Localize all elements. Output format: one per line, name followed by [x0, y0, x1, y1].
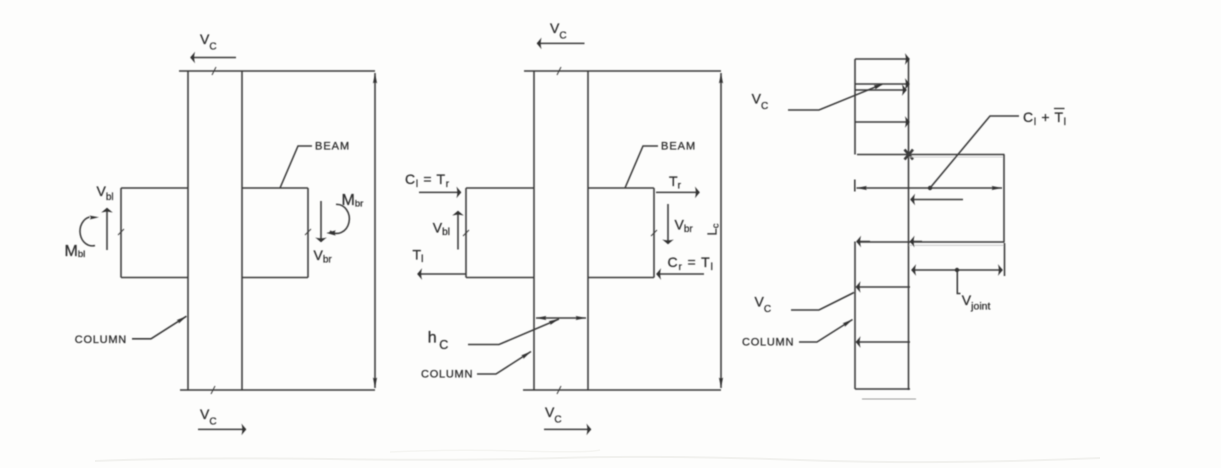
- F2 break tick column top: [557, 67, 561, 75]
- F2 break tick column bottom: [557, 386, 561, 394]
- svg-text:BEAM: BEAM: [661, 141, 696, 153]
- svg-text:VC: VC: [200, 406, 217, 428]
- F1 Vbr arrow down: [320, 201, 322, 242]
- F3 lower rung arrow 2: [856, 341, 910, 343]
- F1 break tick beam left: [118, 229, 124, 235]
- svg-text:Mbr: Mbr: [342, 192, 364, 210]
- svg-text:Cl + Tl: Cl + Tl: [1023, 109, 1067, 128]
- svg-text:COLUMN: COLUMN: [421, 369, 473, 381]
- F1 Mbl moment arc: [80, 217, 95, 246]
- F3 upper rung arrow 2: [855, 121, 910, 123]
- F3 lower rung arrow 1: [856, 286, 910, 288]
- F1 COLUMN leader: [132, 316, 187, 339]
- F3 joint right line: [1003, 155, 1005, 243]
- F1 beam right rect: [242, 188, 308, 278]
- F1 bottom edge: [180, 389, 375, 391]
- F2 BEAM leader: [625, 146, 658, 188]
- F2 Cl=Tr arrow right: [419, 191, 461, 193]
- svg-text:Tl: Tl: [413, 247, 424, 266]
- F3 upper top edge arrow: [855, 58, 910, 60]
- svg-text:COLUMN: COLUMN: [742, 337, 794, 349]
- F3 Vjoint L leader: [957, 272, 960, 294]
- F3 bottom edge arrowhead mid: [910, 241, 922, 243]
- svg-text:VC: VC: [545, 404, 562, 426]
- F3 X mark: [905, 150, 914, 160]
- F3 Ti overline: [1054, 108, 1065, 110]
- F2 Vbl arrow up: [457, 211, 459, 250]
- F2 bottom edge: [523, 389, 721, 391]
- F3 lower column left line: [854, 242, 856, 390]
- F1 beam left rect: [121, 188, 188, 278]
- column F2 right line: [587, 71, 589, 390]
- column F1 left line: [187, 71, 189, 390]
- F3 upper Vc leader: [788, 84, 882, 110]
- F3 CiTi leader: [930, 116, 1019, 188]
- F2 Tr arrow right: [656, 191, 700, 193]
- F3 Vjoint dot: [955, 268, 959, 272]
- F3 top dimension line: [857, 187, 1003, 189]
- column F1 right line: [241, 71, 243, 390]
- svg-text:BEAM: BEAM: [315, 141, 350, 153]
- F2 Vbr arrow down: [667, 204, 669, 244]
- F1 height dimension line: [374, 73, 376, 388]
- F1 Mbr moment arc: [330, 204, 349, 233]
- F1 Vbl arrow up: [106, 208, 108, 250]
- F2 Vc bottom arrow: [544, 428, 591, 430]
- F3 joint top edge: [857, 154, 1005, 156]
- F2 hc double arrow: [536, 317, 586, 319]
- F3 bottom edge arrowhead left: [857, 241, 871, 243]
- F2 beam right rect: [588, 188, 654, 278]
- F3 upper rung arrow 1b: [855, 89, 907, 91]
- svg-text:hC: hC: [428, 330, 448, 353]
- F3 left extension tick: [854, 180, 856, 192]
- F3 lower Vc leader: [791, 293, 854, 311]
- F1 break tick beam right: [305, 229, 311, 235]
- svg-text:Vbl: Vbl: [97, 183, 114, 203]
- F1 break tick column bottom: [211, 386, 215, 394]
- svg-text:Tr: Tr: [669, 173, 682, 192]
- F3 Vjoint right extension: [1004, 243, 1006, 276]
- F2 break tick beam right: [651, 230, 657, 236]
- svg-text:Vbr: Vbr: [314, 247, 333, 266]
- F3 bottom faint line: [862, 398, 916, 400]
- F3 joint force arrow left: [911, 199, 964, 201]
- F3 joint bottom edge: [857, 241, 1005, 243]
- F3 upper column left line: [854, 59, 856, 155]
- F1 break tick column top: [212, 67, 216, 75]
- F3 COLUMN leader: [799, 320, 853, 343]
- F3 lower bottom edge: [855, 388, 910, 390]
- F2 height dimension line Lc: [720, 73, 722, 388]
- svg-text:VC: VC: [752, 91, 769, 113]
- F1 Vc top arrow: [191, 57, 237, 59]
- F1 Vc bottom arrow: [198, 428, 246, 430]
- svg-text:Mbl: Mbl: [65, 243, 86, 260]
- svg-text:Cr = Tl: Cr = Tl: [668, 254, 714, 273]
- F2 top edge: [524, 70, 721, 72]
- svg-text:Vjoint: Vjoint: [962, 292, 991, 313]
- svg-text:Vbr: Vbr: [675, 217, 694, 236]
- column F2 left line: [533, 71, 535, 390]
- svg-text:VC: VC: [550, 20, 567, 42]
- F3 upper rung line 1: [855, 83, 910, 85]
- F2 beam left rect: [466, 188, 534, 278]
- F2 Tl arrow left: [418, 273, 466, 275]
- F2 COLUMN leader: [477, 352, 531, 375]
- svg-text:VC: VC: [755, 294, 772, 316]
- F3 Vjoint dimension line: [912, 269, 1003, 271]
- F2 Vc top arrow: [537, 42, 585, 44]
- F2 Cr=Tl arrow left: [657, 273, 705, 275]
- svg-text:VC: VC: [200, 31, 217, 53]
- F3 column right line: [908, 59, 910, 390]
- F2 hc leader: [468, 319, 559, 345]
- svg-text:COLUMN: COLUMN: [75, 334, 127, 346]
- F1 BEAM leader: [280, 146, 312, 188]
- svg-text:Cl = Tr: Cl = Tr: [405, 171, 450, 190]
- svg-text:Vbl: Vbl: [433, 220, 450, 239]
- bottom scan smudge: [95, 450, 1100, 462]
- F1 top edge: [179, 70, 375, 72]
- F3 leader dot CiTi: [928, 186, 932, 190]
- F2 break tick beam left: [463, 230, 469, 236]
- svg-text:Lc: Lc: [705, 223, 722, 235]
